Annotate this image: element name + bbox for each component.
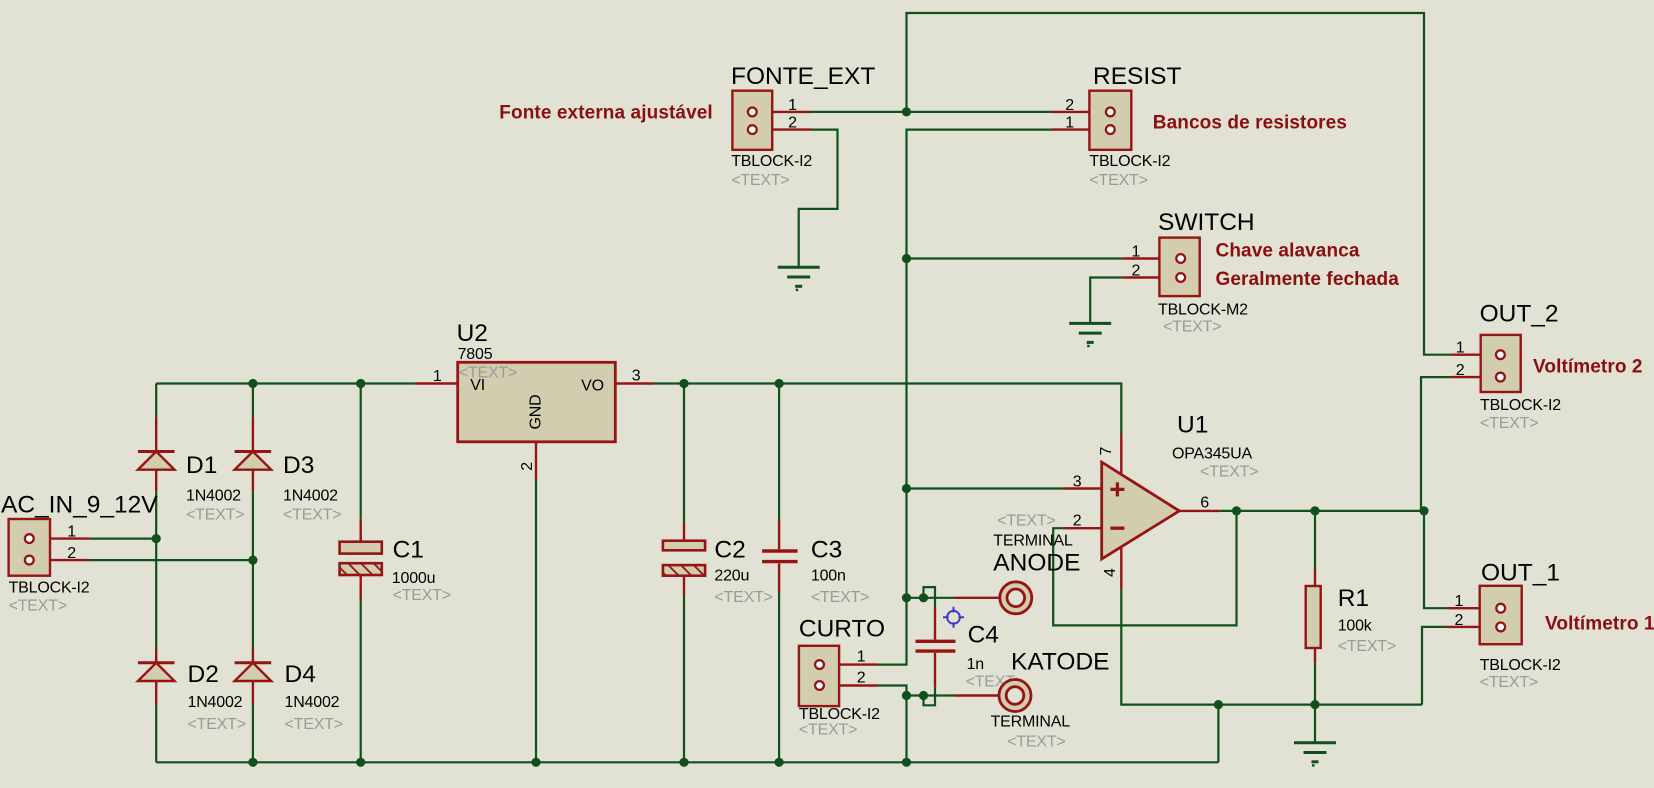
svg-text:6: 6: [1200, 495, 1209, 512]
svg-text:<TEXT>: <TEXT>: [1480, 415, 1538, 432]
svg-text:<TEXT>: <TEXT>: [1480, 674, 1538, 691]
svg-text:TBLOCK-I2: TBLOCK-I2: [731, 153, 812, 170]
junction +V rail C3: [775, 379, 784, 388]
svg-text:2: 2: [1131, 263, 1140, 280]
svg-text:<TEXT>: <TEXT>: [393, 587, 451, 604]
svg-text:AC_IN_9_12V: AC_IN_9_12V: [1, 492, 158, 519]
svg-text:ANODE: ANODE: [993, 550, 1080, 577]
wire C3 column: [778, 384, 780, 763]
terminal KATODE ring: [999, 680, 1031, 712]
svg-text:TBLOCK-I2: TBLOCK-I2: [1089, 153, 1170, 170]
pin stubs U2 pins 1 3 2: [416, 384, 653, 480]
svg-text:TBLOCK-I2: TBLOCK-I2: [1480, 397, 1561, 414]
svg-text:<TEXT>: <TEXT>: [1007, 734, 1065, 751]
svg-text:7: 7: [1098, 447, 1115, 456]
svg-text:1: 1: [788, 97, 797, 114]
svg-text:FONTE_EXT: FONTE_EXT: [731, 63, 875, 90]
connector J4 OUT_2 TBLOCK-I2: [1481, 335, 1521, 392]
svg-text:<TEXT>: <TEXT>: [285, 716, 343, 733]
svg-text:220u: 220u: [714, 568, 749, 585]
pin stubs RESIST: [1051, 112, 1110, 130]
svg-text:C1: C1: [393, 537, 424, 564]
junction AC_IN pin1 D1 D2: [152, 534, 161, 543]
svg-text:1N4002: 1N4002: [188, 694, 243, 711]
svg-text:TERMINAL: TERMINAL: [991, 714, 1071, 731]
connector J2 RESIST TBLOCK-I2: [1089, 91, 1131, 150]
svg-text:RESIST: RESIST: [1093, 63, 1182, 90]
pin stubs AC_IN_9_12V: [29, 539, 90, 561]
svg-text:OUT_2: OUT_2: [1480, 301, 1559, 328]
pin stubs CURTO: [820, 665, 879, 686]
junction output feedback: [1232, 506, 1241, 515]
pin stubs OUT_2: [1450, 355, 1500, 377]
pin stubs C2: [683, 522, 685, 595]
wire RESIST pin 1 down middle vertical to CURTO pin 1: [878, 130, 1051, 665]
wire op-amp pin 4 to analog ground rail: [1121, 589, 1422, 705]
svg-text:2: 2: [1454, 612, 1463, 629]
wire FONTE_EXT pin 1 to RESIST pin 2: [811, 111, 1051, 113]
svg-text:3: 3: [1073, 474, 1082, 491]
pin stubs D1: [155, 417, 157, 491]
wire R1 bottom to ground rail: [1314, 664, 1316, 742]
wire C1 column: [360, 384, 362, 763]
pin stubs R1: [1314, 569, 1316, 664]
svg-text:1000u: 1000u: [392, 570, 436, 587]
svg-text:TBLOCK-M2: TBLOCK-M2: [1158, 302, 1248, 319]
wire hook at C4 bottom: [924, 687, 936, 706]
svg-text:Fonte externa ajustável: Fonte externa ajustável: [499, 103, 713, 124]
svg-text:TBLOCK-I2: TBLOCK-I2: [1480, 657, 1561, 674]
wire ground rail branch to bottom rail: [1217, 705, 1219, 763]
svg-text:<TEXT>: <TEXT>: [714, 589, 772, 606]
svg-text:Geralmente fechada: Geralmente fechada: [1216, 269, 1400, 290]
wire +V rail left segment to U2 VI: [156, 382, 416, 384]
wire ground branch to C4 bottom and KATODE: [907, 694, 956, 696]
junction bottom rail U2 GND: [531, 758, 540, 767]
svg-text:2: 2: [788, 115, 797, 132]
junction bottom rail D4: [248, 758, 257, 767]
op-amp U1 triangle: [1102, 462, 1180, 559]
pin stubs C4: [934, 608, 936, 687]
svg-text:<TEXT>: <TEXT>: [1089, 172, 1147, 189]
svg-text:D4: D4: [285, 661, 316, 688]
junction bottom rail C3: [775, 758, 784, 767]
junction bottom rail C2: [679, 758, 688, 767]
wire node A to SWITCH pin 1: [907, 257, 1123, 259]
junction node A switch: [902, 254, 911, 263]
svg-text:KATODE: KATODE: [1011, 649, 1109, 676]
svg-text:D2: D2: [188, 661, 219, 688]
pin stubs C1: [360, 520, 362, 599]
svg-text:<TEXT>: <TEXT>: [188, 716, 246, 733]
pin stubs C3: [778, 520, 780, 593]
svg-text:<TEXT>: <TEXT>: [283, 507, 341, 524]
svg-text:2: 2: [1073, 513, 1082, 530]
pin stubs D4: [252, 648, 254, 705]
svg-text:2: 2: [519, 462, 536, 471]
svg-text:1: 1: [1454, 593, 1463, 610]
svg-text:Voltímetro 1: Voltímetro 1: [1545, 614, 1654, 635]
svg-text:Chave alavanca: Chave alavanca: [1216, 241, 1360, 262]
svg-text:2: 2: [67, 545, 76, 562]
ground symbol under SWITCH: [1069, 323, 1111, 346]
svg-text:1N4002: 1N4002: [186, 488, 241, 505]
svg-text:OPA345UA: OPA345UA: [1172, 446, 1252, 463]
wire top bus from node A up and across to OUT_2 pin 1: [907, 13, 1451, 355]
junction analog ground to bottom rail: [1214, 700, 1223, 709]
wire U2 GND pin to bottom rail: [535, 480, 537, 762]
junction +V rail D3: [248, 379, 257, 388]
connector J3 SWITCH TBLOCK-M2: [1159, 238, 1199, 297]
wire R1 top: [1314, 511, 1316, 569]
svg-text:<TEXT>: <TEXT>: [1338, 638, 1396, 655]
wire C2 column: [683, 384, 685, 763]
wire SWITCH pin 2 to ground: [1090, 278, 1122, 324]
wire node A branch to op-amp pin 3: [907, 487, 1064, 489]
svg-text:1: 1: [67, 524, 76, 541]
junction output R1: [1310, 506, 1319, 515]
wire feedback from op-amp pin 2 to output: [1053, 511, 1236, 626]
svg-text:TBLOCK-I2: TBLOCK-I2: [799, 706, 880, 723]
junction AC_IN pin2 D3 D4: [248, 556, 257, 565]
junction analog ground R1: [1310, 700, 1319, 709]
svg-text:3: 3: [632, 368, 641, 385]
wire D1 D2 column: [155, 384, 157, 763]
svg-text:GND: GND: [528, 395, 545, 430]
svg-text:100n: 100n: [811, 568, 846, 585]
svg-text:TERMINAL: TERMINAL: [993, 533, 1073, 550]
svg-text:<TEXT>: <TEXT>: [459, 365, 517, 382]
junction output OUT connectors: [1419, 506, 1428, 515]
ground symbol under R1: [1294, 743, 1336, 766]
op-amp U1 plus sign: [1110, 482, 1124, 496]
capacitor C4 1n plates: [916, 641, 956, 651]
wire AC_IN pin 2 to D3 D4 node: [90, 559, 253, 561]
diode D3 1N4002: [235, 452, 272, 470]
svg-text:SWITCH: SWITCH: [1158, 209, 1255, 236]
junction ground C4 bottom: [902, 691, 911, 700]
resistor R1 100k body: [1306, 586, 1321, 648]
pin stubs SWITCH: [1123, 259, 1181, 278]
wire op-amp output to OUT_1 node: [1220, 510, 1424, 512]
capacitor C2 220u electrolytic: [663, 541, 705, 576]
wire D3 D4 column: [252, 384, 254, 763]
svg-text:VO: VO: [581, 378, 604, 395]
regulator U2 7805 body: [458, 362, 616, 442]
svg-text:C2: C2: [714, 537, 745, 564]
svg-text:1: 1: [433, 368, 442, 385]
wire bottom ground rail: [156, 761, 1218, 763]
diode D2 1N4002: [138, 663, 175, 681]
terminal ANODE ring: [1000, 582, 1032, 614]
svg-text:1N4002: 1N4002: [285, 694, 340, 711]
svg-text:CURTO: CURTO: [799, 616, 885, 643]
svg-text:C3: C3: [811, 537, 842, 564]
wire OUT_1 pin 1 up to output node: [1424, 511, 1447, 608]
junction bottom rail C1: [356, 758, 365, 767]
capacitor C3 100n plates: [762, 551, 798, 562]
svg-text:2: 2: [1065, 97, 1074, 114]
svg-text:U1: U1: [1177, 412, 1208, 439]
junction node A C4 top: [902, 593, 911, 602]
pin stubs FONTE_EXT: [752, 112, 811, 130]
connector J1 FONTE_EXT TBLOCK-I2: [732, 91, 772, 150]
svg-text:D3: D3: [283, 452, 314, 479]
connector J7 CURTO TBLOCK-I2: [799, 646, 839, 706]
svg-text:7805: 7805: [458, 346, 493, 363]
wire OUT_2 pin 2 down to output node: [1421, 377, 1450, 511]
junction C4 bottom hook: [919, 691, 928, 700]
svg-text:1: 1: [1456, 340, 1465, 357]
svg-text:<TEXT>: <TEXT>: [799, 722, 857, 739]
wire node A branch to C4 top and ANODE: [907, 597, 956, 599]
svg-text:D1: D1: [186, 452, 217, 479]
ground symbol under FONTE_EXT: [778, 267, 820, 290]
connector J6 AC_IN_9_12V TBLOCK-I2: [9, 519, 50, 576]
wire FONTE_EXT pin 2 to ground: [799, 130, 838, 267]
svg-text:<TEXT>: <TEXT>: [1200, 464, 1258, 481]
svg-text:1: 1: [1065, 115, 1074, 132]
svg-text:2: 2: [1456, 362, 1465, 379]
svg-text:1n: 1n: [967, 656, 984, 673]
junction +V rail C1: [356, 379, 365, 388]
wire hook at C4 top: [924, 587, 936, 608]
junction C4 top hook: [919, 593, 928, 602]
capacitor C1 1000u electrolytic: [340, 542, 382, 575]
svg-text:1N4002: 1N4002: [283, 488, 338, 505]
svg-text:4: 4: [1102, 568, 1119, 577]
wire +V rail from U2 VO to op-amp pin 7: [653, 384, 1121, 434]
svg-text:C4: C4: [968, 622, 999, 649]
pin stubs D2: [155, 648, 157, 705]
svg-text:<TEXT>: <TEXT>: [997, 513, 1055, 530]
pin stub ANODE terminal: [955, 597, 1001, 599]
svg-text:100k: 100k: [1338, 618, 1373, 635]
diode D1 1N4002: [138, 452, 175, 470]
svg-text:<TEXT>: <TEXT>: [9, 598, 67, 615]
pin stubs OUT_1: [1447, 608, 1501, 627]
svg-text:2: 2: [857, 670, 866, 687]
junction +V rail C2: [679, 379, 688, 388]
svg-text:<TEXT>: <TEXT>: [731, 172, 789, 189]
junction CURTO2 bottom rail: [902, 758, 911, 767]
pin stub KATODE terminal: [955, 694, 1000, 696]
svg-text:OUT_1: OUT_1: [1481, 560, 1560, 587]
svg-text:TBLOCK-I2: TBLOCK-I2: [9, 580, 90, 597]
pin stubs D3: [252, 417, 254, 491]
wire OUT_1 pin 2 down to analog ground rail: [1422, 627, 1447, 705]
svg-text:Bancos de resistores: Bancos de resistores: [1153, 112, 1347, 133]
diode D4 1N4002: [235, 663, 272, 681]
pin stubs U1 pins 3 2 7 4 6: [1064, 434, 1220, 590]
svg-text:1: 1: [1131, 244, 1140, 261]
svg-text:<TEXT>: <TEXT>: [186, 507, 244, 524]
svg-text:Voltímetro 2: Voltímetro 2: [1533, 357, 1643, 378]
junction node A op-amp: [902, 484, 911, 493]
origin marker C4 blue crosshair: [943, 607, 964, 628]
svg-text:1: 1: [857, 649, 866, 666]
connector J5 OUT_1 TBLOCK-I2: [1480, 586, 1522, 644]
wire AC_IN pin 1 to D1 D2 node: [90, 537, 156, 539]
op-amp U1 minus sign: [1110, 527, 1124, 530]
wire CURTO pin 2 down to bottom rail: [878, 686, 907, 763]
svg-text:<TEXT>: <TEXT>: [811, 589, 869, 606]
junction node A top: [902, 107, 911, 116]
svg-text:U2: U2: [457, 320, 488, 347]
svg-text:<TEXT>: <TEXT>: [1163, 319, 1221, 336]
svg-text:R1: R1: [1338, 585, 1369, 612]
